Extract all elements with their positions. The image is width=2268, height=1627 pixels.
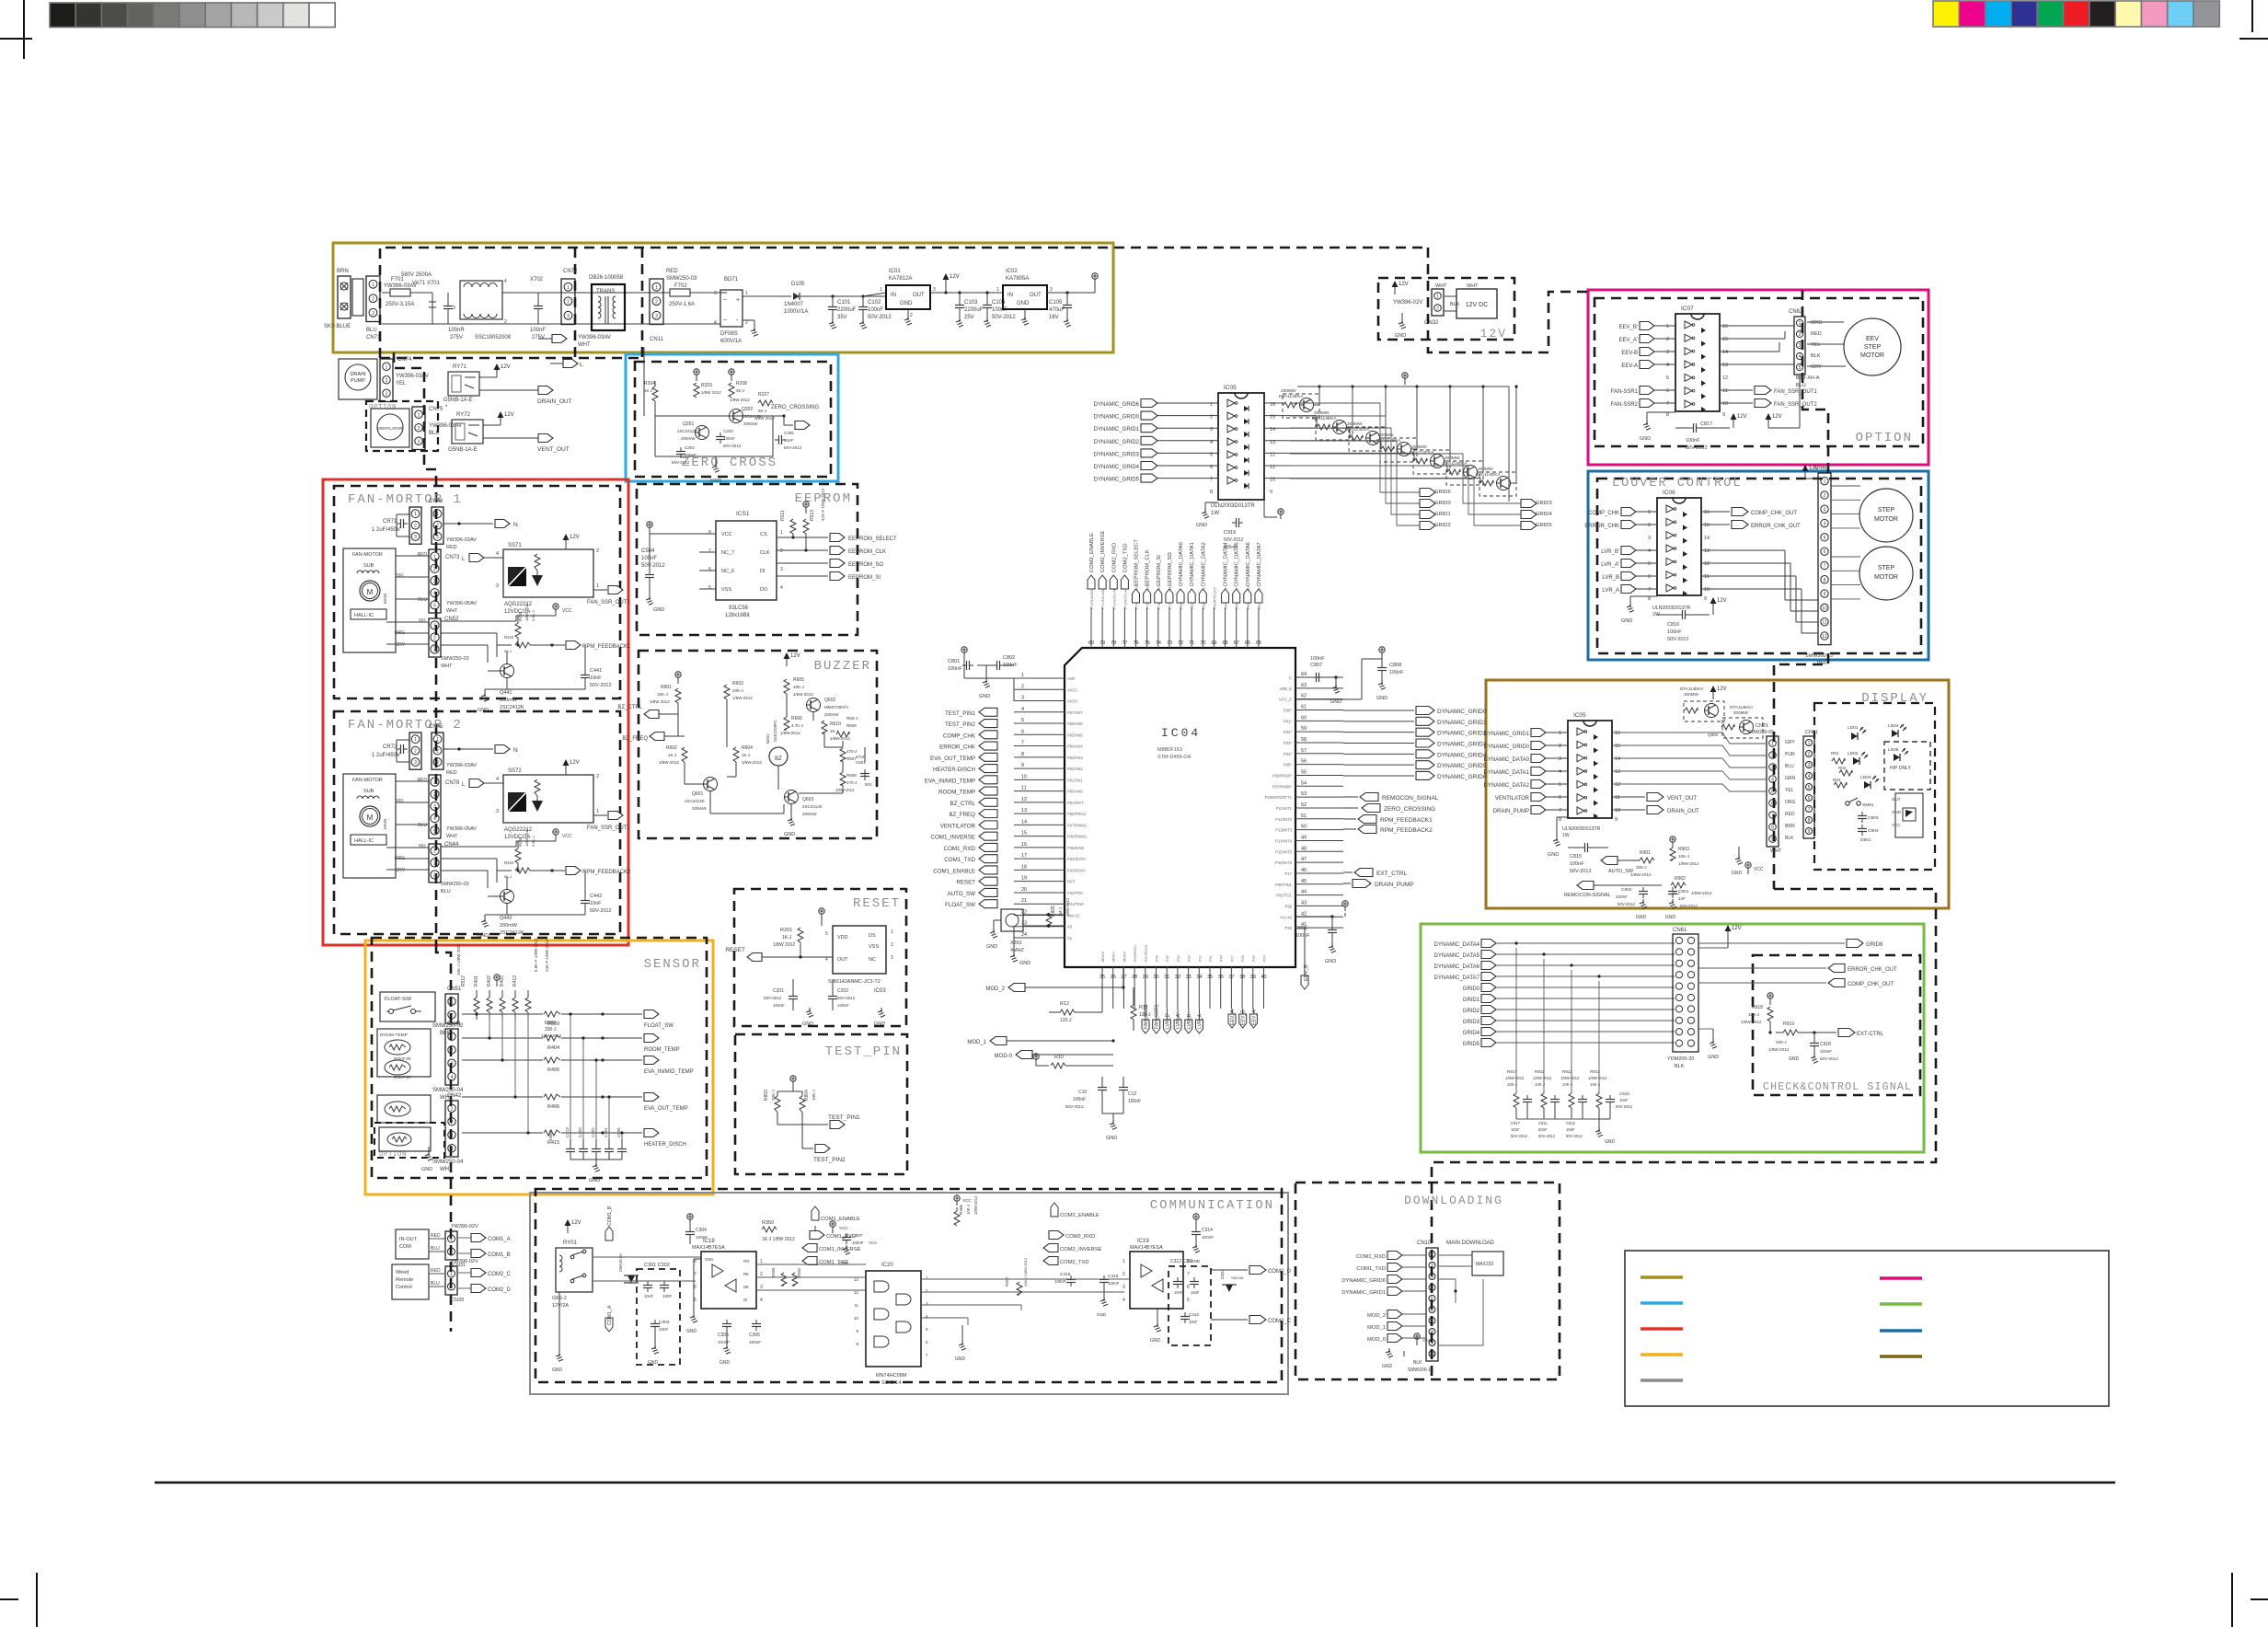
svg-text:2200uF: 2200uF <box>964 307 984 313</box>
vcc comm2 rail <box>956 1201 958 1206</box>
svg-text:4: 4 <box>1799 354 1802 360</box>
svg-text:470-J: 470-J <box>846 749 857 754</box>
flag COMP_CHK_OUT check <box>1698 982 1826 984</box>
flags COM2_C COM2_D ext <box>471 1269 486 1277</box>
svg-text:ORG: ORG <box>395 630 406 636</box>
svg-text:1: 1 <box>891 929 893 935</box>
12V arrow relay1 <box>494 363 501 370</box>
svg-text:BZ_CTRL: BZ_CTRL <box>950 801 975 807</box>
svg-text:P04*: P04* <box>1284 752 1292 756</box>
sensor series resistors and flags <box>462 1013 543 1015</box>
svg-text:LD01: LD01 <box>1848 725 1859 731</box>
flag FAN_SSR_OUT1 <box>593 589 607 591</box>
transistor Q907 DTA114EKA <box>1381 446 1394 452</box>
svg-text:GND: GND <box>1605 1139 1616 1145</box>
svg-text:3: 3 <box>1771 766 1774 771</box>
svg-text:GND: GND <box>686 1329 697 1334</box>
svg-text:2: 2 <box>414 749 417 755</box>
svg-text:12V: 12V <box>790 653 800 659</box>
resistor R227 <box>758 400 773 406</box>
svg-text:56: 56 <box>1301 759 1307 765</box>
svg-text:4: 4 <box>433 816 436 822</box>
gnd eeprom <box>649 595 650 600</box>
svg-text:CLK: CLK <box>760 550 770 556</box>
svg-text:VENTILATOR: VENTILATOR <box>377 426 402 431</box>
svg-text:5: 5 <box>1559 782 1561 788</box>
svg-text:RED: RED <box>666 269 678 274</box>
svg-text:1: 1 <box>1824 479 1826 485</box>
cap C314 <box>1192 1231 1201 1233</box>
svg-text:3: 3 <box>372 311 374 317</box>
gnd grid ic <box>1205 502 1218 503</box>
caps C305 C306 <box>722 1323 731 1325</box>
svg-text:2: 2 <box>567 299 570 305</box>
svg-text:6: 6 <box>708 567 711 572</box>
svg-text:R602: R602 <box>666 745 677 751</box>
svg-text:D304: D304 <box>1220 1269 1225 1279</box>
svg-text:75: 75 <box>1145 640 1150 646</box>
svg-text:RPM_FEEDBACK1: RPM_FEEDBACK1 <box>582 644 631 650</box>
svg-text:C103: C103 <box>964 300 978 306</box>
capacitor C304 <box>685 1231 695 1233</box>
svg-text:MAX14B7ESA: MAX14B7ESA <box>692 1245 725 1251</box>
svg-text:GND: GND <box>705 1257 713 1262</box>
svg-text:ERROR_CHK: ERROR_CHK <box>1584 524 1619 529</box>
svg-text:C307: C307 <box>852 1233 863 1239</box>
svg-text:78: 78 <box>1111 640 1116 646</box>
svg-text:C918: C918 <box>1820 1042 1831 1047</box>
svg-text:DYNAMIC_DATA7: DYNAMIC_DATA7 <box>1434 975 1480 981</box>
svg-text:5: 5 <box>1187 1298 1190 1303</box>
svg-text:DYNAMIC_GRID0: DYNAMIC_GRID0 <box>1437 709 1487 715</box>
svg-text:12V: 12V <box>1772 414 1782 420</box>
svg-text:LD03: LD03 <box>1860 775 1871 780</box>
svg-text:GND: GND <box>589 1178 600 1183</box>
svg-text:P03*: P03* <box>1284 741 1292 745</box>
svg-text:DTA114EKA: DTA114EKA <box>1730 705 1754 710</box>
svg-text:ULN2003D013TR: ULN2003D013TR <box>1652 606 1690 611</box>
svg-text:FAN_SSR_OUT2: FAN_SSR_OUT2 <box>587 825 630 831</box>
option dashed box sensor <box>374 1123 444 1158</box>
svg-text:13: 13 <box>854 1277 859 1282</box>
gnd c305 <box>726 1331 728 1345</box>
svg-text:EEPROM_SO: EEPROM_SO <box>848 562 883 568</box>
H/P ONLY dashed box <box>1884 742 1930 790</box>
svg-text:R306: R306 <box>959 1205 963 1215</box>
svg-text:50V-2012: 50V-2012 <box>1566 1134 1583 1138</box>
feedback wires <box>441 620 516 622</box>
svg-text:200mW: 200mW <box>500 923 518 929</box>
buzzer wires <box>677 703 679 714</box>
flag FAN_SSR_OUT1 opt <box>1720 389 1753 391</box>
resistors R306 R304 <box>781 1273 787 1286</box>
resistor R804 <box>800 1096 805 1113</box>
svg-text:GND: GND <box>1150 1338 1161 1344</box>
svg-text:14: 14 <box>1704 536 1710 541</box>
svg-text:3: 3 <box>1799 343 1802 349</box>
svg-text:MOD_0: MOD_0 <box>1367 1337 1386 1343</box>
svg-text:C911: C911 <box>1538 1121 1548 1125</box>
svg-text:1/8W-2012: 1/8W-2012 <box>659 760 679 765</box>
svg-text:12: 12 <box>1615 782 1620 788</box>
svg-text:77: 77 <box>1122 640 1127 646</box>
svg-text:69: 69 <box>1211 640 1216 646</box>
svg-text:61: 61 <box>1301 704 1307 710</box>
12V arrow CN60 <box>1802 465 1809 471</box>
svg-text:C303: C303 <box>659 1320 670 1325</box>
svg-text:P07/PM00*: P07/PM00* <box>1272 784 1293 789</box>
svg-text:44: 44 <box>1301 890 1307 895</box>
dashed bus option to louver <box>1802 290 1828 479</box>
svg-text:12V: 12V <box>570 760 580 766</box>
flag RPM_FEEDBACK2 in <box>1343 828 1356 830</box>
svg-text:BLU: BLU <box>366 328 377 333</box>
svg-text:ERROR_CHK_OUT: ERROR_CHK_OUT <box>1751 524 1801 529</box>
flag ZERO_CROSSING in <box>1343 807 1358 809</box>
svg-text:M8B0F163: M8B0F163 <box>1157 747 1182 753</box>
svg-text:DYNAMIC_DATA4: DYNAMIC_DATA4 <box>1224 541 1229 586</box>
zero cross inner dashed box <box>635 362 831 477</box>
svg-text:WHT: WHT <box>446 608 458 614</box>
flag ERROR_CHK_OUT check <box>1698 967 1826 969</box>
ic IC04 main MCU <box>1065 648 1295 967</box>
svg-text:100nF: 100nF <box>1570 861 1584 867</box>
svg-text:P71/SA1/AN8: P71/SA1/AN8 <box>1101 588 1105 609</box>
svg-text:10nF: 10nF <box>659 1327 669 1332</box>
dashed box C301 C302 <box>637 1269 680 1365</box>
svg-text:GND: GND <box>1019 961 1030 966</box>
svg-text:R403: R403 <box>500 975 505 987</box>
svg-text:8: 8 <box>856 1342 858 1346</box>
svg-text:COMP_CHK: COMP_CHK <box>1588 511 1619 516</box>
svg-text:10: 10 <box>1704 587 1710 593</box>
svg-text:NC_7: NC_7 <box>721 550 734 556</box>
gnd reset <box>809 1008 811 1012</box>
svg-text:1: 1 <box>1799 321 1802 327</box>
svg-text:1/8W-2012: 1/8W-2012 <box>1630 872 1652 877</box>
gnd fan <box>506 904 508 915</box>
svg-text:G5NB-1A-E: G5NB-1A-E <box>448 447 478 453</box>
caps C903 C904 <box>1858 815 1867 817</box>
svg-text:LVR_A: LVR_A <box>1602 588 1619 594</box>
svg-text:1/8W-2012: 1/8W-2012 <box>973 1195 978 1215</box>
svg-text:ZERO_CROSSING: ZERO_CROSSING <box>1384 806 1435 813</box>
svg-text:3: 3 <box>1808 763 1811 768</box>
connector CN75 <box>412 407 425 450</box>
svg-text:50V-2012: 50V-2012 <box>784 445 802 450</box>
svg-text:IN: IN <box>1007 293 1013 298</box>
svg-text:10K-J 1/8W-2012: 10K-J 1/8W-2012 <box>1023 1257 1028 1287</box>
svg-text:2: 2 <box>436 524 439 529</box>
svg-text:2: 2 <box>450 1285 453 1290</box>
svg-text:10nF: 10nF <box>1189 1320 1198 1324</box>
capacitor C204 <box>716 436 725 438</box>
gnd zero cross <box>715 456 717 464</box>
svg-text:LD02: LD02 <box>1848 751 1859 756</box>
svg-text:DISPLAY: DISPLAY <box>1861 691 1928 706</box>
svg-text:SUB: SUB <box>363 563 374 569</box>
transistor Q905 DTA114EKA <box>1447 469 1460 475</box>
svg-text:30: 30 <box>1154 975 1159 980</box>
svg-text:BRN: BRN <box>1785 824 1795 829</box>
svg-text:MOD-0: MOD-0 <box>995 1054 1013 1059</box>
svg-text:1: 1 <box>451 1034 454 1040</box>
svg-text:RESET: RESET <box>725 947 745 953</box>
caps C316 C315 <box>1066 1279 1076 1281</box>
svg-text:10: 10 <box>1722 401 1728 407</box>
svg-text:EEV-B: EEV-B <box>1621 351 1638 356</box>
svg-text:EEV: EEV <box>1866 336 1879 342</box>
svg-text:6: 6 <box>1771 802 1774 807</box>
svg-text:R402: R402 <box>487 975 492 987</box>
resistor R440 <box>515 623 521 638</box>
svg-text:P67/AN7: P67/AN7 <box>1067 710 1083 715</box>
svg-text:71: 71 <box>1189 640 1194 646</box>
svg-text:BLU: BLU <box>431 1281 440 1287</box>
caps C902 C901 <box>1639 891 1648 893</box>
svg-text:C904: C904 <box>1868 828 1879 834</box>
svg-text:46: 46 <box>1301 868 1307 873</box>
svg-text:1: 1 <box>596 809 599 814</box>
svg-text:C102: C102 <box>868 300 881 306</box>
svg-text:CN21: CN21 <box>1756 723 1768 729</box>
svg-text:2: 2 <box>1771 754 1774 759</box>
svg-text:WHT: WHT <box>1770 848 1782 854</box>
svg-text:R901: R901 <box>1640 850 1651 856</box>
svg-text:C441: C441 <box>590 668 602 674</box>
svg-text:COM2_INVERSE: COM2_INVERSE <box>1060 1247 1102 1252</box>
sensor caps to gnd <box>570 1139 571 1147</box>
svg-text:C401: C401 <box>604 1127 608 1137</box>
svg-text:P12/INT2: P12/INT2 <box>1275 817 1292 822</box>
zero cross wires <box>655 415 754 417</box>
svg-text:50V-2012: 50V-2012 <box>1680 904 1698 908</box>
svg-text:R440: R440 <box>518 611 523 621</box>
svg-text:FAN_SSR2: FAN_SSR2 <box>1144 1004 1149 1029</box>
svg-text:R603: R603 <box>732 681 743 687</box>
svg-text:50V-2012: 50V-2012 <box>992 315 1016 320</box>
svg-text:P43/SCK0: P43/SCK0 <box>1067 868 1086 872</box>
feedback wires <box>441 846 516 848</box>
svg-text:4: 4 <box>1559 769 1561 775</box>
svg-text:GRID6: GRID6 <box>1866 942 1883 948</box>
svg-text:24: 24 <box>1021 932 1027 938</box>
gnd cn21 <box>1738 847 1740 856</box>
test_pin dashed box <box>735 1034 907 1174</box>
svg-text:CN45: CN45 <box>429 724 443 730</box>
vcc eeprom left <box>649 527 650 532</box>
svg-text:5: 5 <box>926 1327 928 1332</box>
svg-text:50V-2012: 50V-2012 <box>837 996 856 1000</box>
louver inner dashed box <box>1597 479 1921 653</box>
legend sample gray <box>1641 1379 1683 1382</box>
transistor Q902 display <box>1721 724 1734 730</box>
svg-text:2: 2 <box>386 378 388 384</box>
capacitor C101 <box>831 294 834 297</box>
svg-text:VSS: VSS <box>869 944 879 950</box>
svg-text:R227: R227 <box>758 392 769 398</box>
svg-text:YEL: YEL <box>396 381 407 387</box>
svg-text:11: 11 <box>854 1303 858 1308</box>
svg-text:5: 5 <box>433 603 436 608</box>
test pin wires <box>792 1088 794 1091</box>
svg-text:10: 10 <box>1615 808 1620 813</box>
resistor R602 <box>682 747 687 762</box>
svg-text:48: 48 <box>1301 846 1307 851</box>
svg-text:GND: GND <box>552 1367 563 1373</box>
wires CN60 to motors <box>1831 485 1860 487</box>
svg-text:P35: P35 <box>1166 955 1169 962</box>
svg-text:YW396-05AV: YW396-05AV <box>446 601 477 606</box>
svg-text:1: 1 <box>1021 673 1024 678</box>
flag BZ_FREQ <box>650 733 664 741</box>
svg-text:66: 66 <box>1245 640 1250 646</box>
svg-text:SM91: SM91 <box>1862 802 1874 808</box>
svg-text:3: 3 <box>891 955 893 961</box>
svg-text:47K-F 1/8W 2012: 47K-F 1/8W 2012 <box>821 488 825 521</box>
svg-text:IC19: IC19 <box>1137 1239 1149 1244</box>
svg-text:2SC2412K: 2SC2412K <box>677 429 697 433</box>
svg-text:COM2_RXD: COM2_RXD <box>1065 1234 1095 1240</box>
svg-text:2SC2412K: 2SC2412K <box>500 930 524 936</box>
svg-text:SS72: SS72 <box>508 768 522 774</box>
svg-text:1: 1 <box>386 364 388 370</box>
12V arrow IC06 <box>1710 597 1717 604</box>
svg-text:330-J: 330-J <box>1776 1040 1787 1044</box>
svg-text:3: 3 <box>433 579 436 584</box>
svg-text:CN72: CN72 <box>563 269 578 274</box>
svg-text:5: 5 <box>1799 365 1802 371</box>
svg-text:C306: C306 <box>749 1333 760 1338</box>
flags GRID3 GRID4 GRID5 <box>1521 500 1537 508</box>
svg-text:200MW: 200MW <box>1684 692 1698 697</box>
svg-text:R513: R513 <box>810 510 815 521</box>
svg-text:RPM_FEEDBACK2: RPM_FEEDBACK2 <box>582 870 631 875</box>
bottom rule <box>155 1482 2115 1483</box>
svg-text:1: 1 <box>418 412 420 418</box>
svg-text:GND: GND <box>648 1360 659 1366</box>
svg-text:1: 1 <box>760 1259 763 1264</box>
svg-text:100F: 100F <box>662 1294 673 1298</box>
svg-text:COM2_TXD: COM2_TXD <box>1060 1260 1089 1265</box>
svg-text:YW396-02V: YW396-02V <box>451 1224 478 1229</box>
12V arrow fan <box>563 534 570 540</box>
wires x301 <box>1023 914 1065 916</box>
svg-text:C313: C313 <box>1189 1312 1199 1317</box>
svg-text:CR71: CR71 <box>383 519 397 525</box>
svg-text:R606: R606 <box>791 716 802 721</box>
svg-text:59: 59 <box>1301 726 1307 732</box>
svg-text:6: 6 <box>1808 796 1811 802</box>
svg-text:GND: GND <box>1621 618 1632 624</box>
svg-text:BLK: BLK <box>429 431 439 436</box>
svg-text:1: 1 <box>451 999 454 1005</box>
svg-text:1: 1 <box>1431 1252 1433 1258</box>
sensor pullup resistors <box>496 980 498 985</box>
svg-text:CN32: CN32 <box>1424 320 1439 326</box>
svg-text:50V-2012: 50V-2012 <box>590 908 612 914</box>
svg-text:WHT: WHT <box>1435 283 1447 289</box>
svg-text:DYNAMIC_GRID0: DYNAMIC_GRID0 <box>1484 744 1530 750</box>
svg-text:EXT-CTRL: EXT-CTRL <box>1857 1032 1884 1037</box>
legend sample green <box>1880 1302 1922 1306</box>
svg-text:120-J: 120-J <box>1060 1018 1072 1023</box>
svg-text:7: 7 <box>1771 813 1774 819</box>
svg-text:BZ_CTRL: BZ_CTRL <box>617 705 642 710</box>
wire to N flag <box>443 748 493 750</box>
drain pump <box>339 359 377 399</box>
svg-text:COMMUNICATION: COMMUNICATION <box>1150 1198 1274 1213</box>
svg-text:2: 2 <box>1431 1264 1433 1269</box>
svg-text:CN42: CN42 <box>447 1093 462 1099</box>
svg-text:10K-J: 10K-J <box>657 692 668 697</box>
12V arrow comm <box>565 1219 571 1226</box>
svg-text:39: 39 <box>1250 975 1256 980</box>
svg-text:P66/AN6: P66/AN6 <box>1067 721 1083 726</box>
capacitor C203 <box>676 451 685 453</box>
svg-text:EEPROM_SELECT: EEPROM_SELECT <box>848 537 897 542</box>
vcc eeprom pullups <box>805 507 807 512</box>
svg-text:3: 3 <box>433 648 436 653</box>
svg-text:2: 2 <box>451 1048 454 1054</box>
svg-text:P42/TO0: P42/TO0 <box>1067 891 1083 895</box>
connector CN74 <box>380 359 393 402</box>
svg-text:FLOAT_SW: FLOAT_SW <box>644 1023 673 1029</box>
svg-text:8: 8 <box>1808 818 1811 824</box>
color calibration bar <box>1933 1 2219 27</box>
svg-text:R903: R903 <box>1678 847 1689 852</box>
svg-text:3: 3 <box>714 291 717 296</box>
comm1 flags <box>812 1206 819 1220</box>
svg-text:YEL: YEL <box>1811 342 1820 348</box>
eva out temp sensor <box>377 1095 431 1123</box>
flag DRAIN_PUMP out <box>1343 883 1351 884</box>
svg-text:ORG: ORG <box>1785 800 1796 805</box>
svg-text:51: 51 <box>1301 813 1307 819</box>
svg-text:2: 2 <box>745 320 748 326</box>
svg-text:FAN-MOTOR: FAN-MOTOR <box>352 778 383 783</box>
svg-text:200MW: 200MW <box>1733 710 1748 715</box>
svg-text:GRID3: GRID3 <box>1463 1020 1480 1025</box>
svg-text:10K-J: 10K-J <box>771 1090 776 1101</box>
svg-text:2: 2 <box>433 792 436 798</box>
svg-text:40: 40 <box>1261 975 1267 980</box>
registration mark top-left <box>23 0 25 59</box>
wire N bottom <box>382 323 644 325</box>
svg-text:MAIN DOWNLOAD: MAIN DOWNLOAD <box>1446 1240 1495 1246</box>
svg-text:CN62: CN62 <box>1789 309 1803 315</box>
flag EXT_CTRL <box>1343 871 1353 873</box>
svg-text:SA5.0A: SA5.0A <box>1231 1275 1244 1280</box>
svg-text:7: 7 <box>926 1353 928 1357</box>
svg-text:RED: RED <box>1811 331 1822 337</box>
resistor R350 <box>762 1227 777 1232</box>
svg-text:GND: GND <box>802 1021 813 1027</box>
svg-text:33: 33 <box>1186 975 1192 980</box>
svg-text:DS: DS <box>869 933 876 939</box>
svg-text:12: 12 <box>1704 561 1710 567</box>
svg-text:C105: C105 <box>1049 300 1063 306</box>
svg-text:10nF: 10nF <box>644 1294 654 1298</box>
svg-text:VCC: VCC <box>562 608 572 614</box>
svg-text:MOD2: MOD2 <box>1122 952 1126 962</box>
wires IC07 to CN62 <box>1720 325 1794 327</box>
flag MOD_2 <box>1008 984 1025 992</box>
svg-text:7: 7 <box>1431 1319 1433 1324</box>
resistor R208 <box>729 383 734 398</box>
svg-text:C12: C12 <box>1128 1091 1136 1097</box>
svg-text:CN01: CN01 <box>1805 730 1818 735</box>
